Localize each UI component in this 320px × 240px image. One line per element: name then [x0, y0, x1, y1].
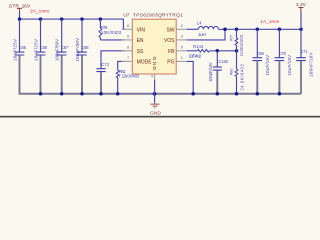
svg-text:C70: C70 [279, 51, 287, 56]
svg-text:C66: C66 [40, 45, 48, 50]
svg-text:SS: SS [137, 49, 144, 55]
node bus-R80 [235, 92, 239, 96]
svg-text:VIN: VIN [137, 28, 146, 34]
capacitor C70 [275, 29, 292, 94]
node bus-PG [191, 92, 195, 96]
svg-text:6: 6 [127, 23, 129, 28]
svg-text:1A_1mm: 1A_1mm [260, 19, 279, 24]
pin 6 VIN [122, 23, 146, 33]
svg-text:24.9K/0402: 24.9K/0402 [240, 63, 245, 90]
svg-text:100pF/50V: 100pF/50V [75, 38, 80, 62]
resistor R81 [116, 69, 140, 94]
svg-text:2: 2 [181, 23, 183, 28]
node rail-C67 [60, 17, 64, 21]
node VOS tap [223, 28, 227, 32]
node bus-C66 [39, 92, 43, 96]
capacitor C65 [13, 19, 27, 94]
sheet background [0, 0, 320, 118]
capacitor C67 [55, 19, 69, 94]
node bus-C182 [216, 92, 220, 96]
wire ground bus [19, 93, 301, 95]
wire IC GND pin down to gnd symbol [154, 80, 156, 103]
node bus-C69 [256, 92, 260, 96]
wire SS to C72 [101, 51, 125, 69]
pin 8 SS [122, 45, 144, 56]
svg-text:3: 3 [181, 34, 183, 39]
node bus-C67 [60, 92, 64, 96]
pin 3 VOS [164, 34, 187, 45]
svg-text:GND: GND [151, 57, 157, 71]
pin 4 GND (bottom) [151, 57, 157, 81]
svg-text:9: 9 [181, 45, 183, 50]
svg-text:SW: SW [166, 28, 174, 34]
node bus-C68 [80, 92, 84, 96]
svg-text:100nF/50V: 100nF/50V [55, 39, 60, 61]
node rail-C65 [18, 17, 22, 21]
svg-text:7: 7 [127, 55, 129, 60]
pin 9 FB [168, 45, 187, 56]
wire MODE to R81 [118, 61, 125, 70]
node FB divider [235, 49, 239, 53]
wire PG down to gnd bus [187, 61, 193, 93]
svg-text:10K/0402: 10K/0402 [101, 30, 122, 35]
svg-text:113K/0402: 113K/0402 [239, 34, 244, 56]
svg-text:TPS62903QRYTRQ1: TPS62903QRYTRQ1 [133, 13, 183, 18]
power port GTR_16V [9, 4, 31, 13]
svg-text:L4: L4 [197, 20, 203, 25]
pin 5 EN [122, 34, 144, 45]
svg-text:100nF/16V: 100nF/16V [309, 52, 314, 77]
svg-text:C68: C68 [81, 45, 89, 50]
svg-text:100pF/16V: 100pF/16V [208, 62, 213, 82]
svg-text:R77: R77 [228, 35, 233, 42]
sheet bottom border [0, 116, 320, 118]
wire R144 to divider [209, 50, 236, 52]
svg-text:C72: C72 [101, 62, 110, 67]
wire output rail 3.3V [218, 28, 301, 30]
power port 3.3V [296, 2, 307, 13]
svg-text:1: 1 [181, 55, 183, 60]
resistor R76 [99, 19, 122, 40]
node bus-GND [153, 92, 157, 96]
capacitor C66 [34, 19, 48, 94]
svg-text:4: 4 [151, 74, 153, 78]
node bus-R81 [116, 92, 120, 96]
svg-text:GND: GND [150, 110, 161, 116]
svg-text:C67: C67 [61, 45, 69, 50]
svg-text:U7: U7 [123, 13, 129, 18]
svg-text:10uF/25V: 10uF/25V [13, 39, 18, 61]
svg-text:R144: R144 [193, 44, 204, 49]
capacitor C71 [296, 29, 313, 94]
inductor L4 [197, 20, 219, 37]
capacitor C69 [253, 29, 270, 94]
node rail-C68 [80, 17, 84, 21]
svg-text:EN: EN [137, 38, 144, 44]
svg-text:3.3V: 3.3V [296, 2, 307, 7]
node C69 top [256, 28, 260, 32]
wire SW to L4 [187, 28, 199, 30]
wire VIN rail [20, 19, 126, 29]
svg-text:10uF/16V: 10uF/16V [287, 55, 292, 76]
wire 3.3V riser [300, 13, 302, 30]
resistor R80 [229, 51, 245, 94]
ground [150, 104, 161, 116]
svg-text:C71: C71 [300, 49, 308, 54]
resistor R144 [189, 44, 210, 58]
wire FB row [187, 50, 198, 52]
svg-text:5: 5 [127, 34, 129, 39]
svg-text:FB: FB [168, 49, 175, 55]
node C71 / 3.3V [299, 28, 303, 32]
pin 1 PG [167, 55, 187, 65]
pin 7 MODE [122, 55, 153, 65]
capacitor C182 [208, 51, 229, 94]
node rail-C66 [39, 17, 43, 21]
wire VOS up to output node [187, 29, 225, 40]
svg-text:C182: C182 [218, 59, 228, 64]
svg-text:MODE: MODE [137, 60, 153, 66]
svg-text:10/0402: 10/0402 [189, 53, 203, 58]
svg-text:PG: PG [167, 60, 174, 66]
node C70 top [278, 28, 282, 32]
svg-text:10uF/25V: 10uF/25V [34, 39, 39, 61]
svg-text:VOS: VOS [164, 38, 175, 44]
svg-text:2A_1mm: 2A_1mm [30, 9, 49, 14]
node bus-C70 [278, 92, 282, 96]
op-amp U1 : IC U7 TPS62903QRYTRQ1 body [123, 13, 183, 74]
resistor R77 [228, 29, 244, 56]
node C182 tap [216, 49, 220, 53]
capacitor C72 [96, 62, 109, 94]
svg-text:10uF/16V: 10uF/16V [265, 55, 270, 76]
svg-text:R80: R80 [229, 68, 234, 76]
node bus-C72 [99, 92, 103, 96]
svg-text:8: 8 [127, 45, 129, 50]
wire EN [100, 39, 125, 41]
svg-text:C65: C65 [19, 45, 27, 50]
capacitor C68 [75, 19, 89, 94]
node rail-R76 [99, 17, 103, 21]
wire port to rail [19, 12, 21, 19]
svg-text:C69: C69 [257, 51, 265, 56]
node R77 top [235, 28, 239, 32]
pin 2 SW [166, 23, 186, 33]
svg-text:1uH: 1uH [198, 32, 206, 37]
